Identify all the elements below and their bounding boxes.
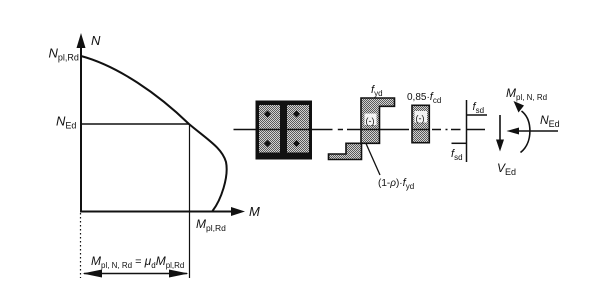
svg-text:(1-ρ)·fyd: (1-ρ)·fyd [378, 177, 414, 191]
axis between steel and concrete stress blocks [380, 129, 410, 131]
svg-text:N: N [91, 33, 101, 48]
N_Ed horizontal line [81, 123, 190, 125]
axis across steel block [361, 129, 380, 131]
minus sign in concrete block [415, 111, 428, 123]
svg-text:M: M [249, 204, 260, 219]
top rebar stress tick [467, 114, 488, 116]
svg-text:NEd: NEd [56, 114, 76, 131]
svg-text:Npl,Rd: Npl,Rd [49, 46, 79, 63]
rebar stress vertical reference line [466, 100, 468, 162]
dotted extension line under N axis [80, 213, 82, 278]
leader line to (1-rho)f_yd label [366, 144, 380, 176]
rebar dot bottom-left [264, 140, 271, 147]
svg-text:Mpl, N, Rd = μdMpl,Rd: Mpl, N, Rd = μdMpl,Rd [91, 254, 184, 270]
concrete hatched cell top-left [259, 105, 280, 153]
rebar dot top-right [293, 111, 300, 118]
steel stress block f_yd (compression) [361, 98, 395, 143]
minus sign in steel block [365, 114, 377, 126]
dash-dot axis between section and steel stress block [318, 129, 361, 131]
moment arrow M_pl,N,Rd [514, 101, 530, 153]
svg-text:(-): (-) [416, 114, 425, 124]
svg-text:NEd: NEd [540, 113, 560, 129]
axial force arrow N_Ed [507, 128, 559, 135]
svg-text:fyd: fyd [371, 84, 383, 98]
axis tick right of rebar stress line [467, 129, 486, 131]
concrete hatched cell right [287, 105, 309, 153]
centroidal axis across section [256, 129, 313, 131]
interaction diagram M axis [80, 207, 245, 216]
axis across concrete block [412, 129, 429, 131]
svg-text:0,85·fcd: 0,85·fcd [407, 91, 441, 105]
cross-section outer steel (black) [256, 101, 313, 160]
interaction curve [81, 56, 227, 211]
svg-text:(-): (-) [366, 116, 375, 126]
concrete stress block 0,85 f_cd [412, 105, 429, 142]
cross-section centroidal axis (left solid part) [234, 129, 319, 131]
steel stress block tension step (1-rho)f_yd [329, 143, 362, 159]
svg-text:VEd: VEd [497, 161, 516, 177]
interaction diagram N axis [77, 33, 86, 212]
dash-dot axis between concrete block and rebar stress line [432, 129, 461, 131]
bottom rebar stress tick [452, 142, 467, 144]
svg-text:fsd: fsd [451, 148, 463, 162]
vertical projection line at M_pl,N,Rd [189, 124, 191, 278]
shear force arrow V_Ed [496, 115, 504, 152]
svg-text:fsd: fsd [473, 101, 485, 115]
dimension arrow M_pl,N,Rd [83, 270, 189, 278]
rebar dot top-left [264, 111, 271, 118]
rebar dot bottom-right [293, 140, 300, 147]
svg-text:Mpl,Rd: Mpl,Rd [196, 217, 226, 233]
svg-text:Mpl, N, Rd: Mpl, N, Rd [506, 86, 547, 102]
